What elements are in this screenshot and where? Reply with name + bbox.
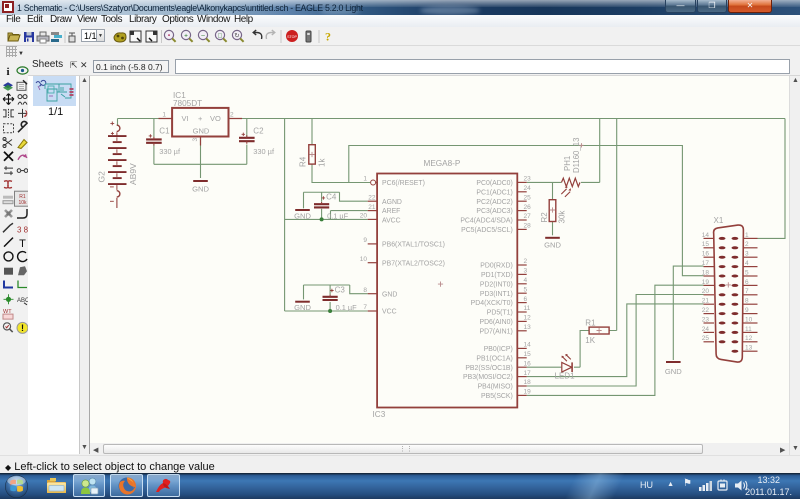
svg-text:13: 13 [524,324,532,331]
svg-text:1K: 1K [585,336,595,345]
svg-text:5: 5 [745,269,749,276]
IC3 left pins [360,176,445,316]
svg-text:3: 3 [745,251,749,258]
ground symbol below IC1 [193,180,208,182]
capacitor C2 330uF [239,138,255,141]
photoresistor PH1 D1160_13 [561,138,583,197]
ground symbol at X1 pin17 net [666,361,681,363]
X1 right pins 1-13 [732,232,758,353]
svg-text:21: 21 [702,298,710,305]
svg-text:IC3: IC3 [373,410,386,419]
svg-text:13: 13 [745,345,753,352]
svg-text:PD1(TXD): PD1(TXD) [481,272,513,279]
svg-text:PB5(SCK): PB5(SCK) [481,393,513,400]
svg-text:+: + [198,114,203,123]
wire C2 top branch [246,119,248,137]
wire C4 lower stub [321,209,323,220]
svg-text:22: 22 [368,194,376,201]
svg-text:5: 5 [524,286,528,293]
start orb [4,474,29,499]
wire C4 gnd drop [303,192,305,208]
wire photoresistor right to +5V rail [581,119,600,183]
wire GND pin 8 connection [350,285,368,294]
svg-text:PC0(ADC0): PC0(ADC0) [476,180,512,187]
svg-text:3: 3 [192,138,199,142]
svg-text:AB9V: AB9V [128,163,138,185]
svg-text:PC6(/RESET): PC6(/RESET) [382,180,425,187]
svg-text:18: 18 [524,379,532,386]
explorer [45,476,68,496]
svg-text:AVCC: AVCC [382,218,401,225]
svg-text:8: 8 [363,287,367,294]
wire +5V vertical to VCC [284,119,286,312]
svg-text:R2: R2 [540,212,549,223]
svg-text:11: 11 [524,305,531,312]
svg-text:4: 4 [745,260,749,267]
svg-text:PB3(M0SI/OC2): PB3(M0SI/OC2) [463,374,513,381]
svg-text:PD5(T1): PD5(T1) [487,310,513,317]
svg-text:VO: VO [210,114,221,123]
wire battery positive riser [117,119,119,127]
svg-text:PB1(OC1A): PB1(OC1A) [476,355,512,362]
wire PB2 pin 16 to LED1 [527,366,562,368]
ground symbol below R2 [545,237,560,239]
svg-text:3: 3 [524,268,528,275]
wire R4 top branch [311,119,313,145]
svg-text:7: 7 [745,288,749,295]
svg-text:VI: VI [182,114,189,123]
status bar [0,455,800,473]
svg-text:C3: C3 [335,286,346,295]
svg-text:26: 26 [524,204,532,211]
wire LED1 to R1 [574,331,589,368]
wire R4 bottom to RESET pin 1 [312,164,370,182]
svg-text:21: 21 [368,204,376,211]
wire IC1 pin3 to GND symbol [200,137,202,179]
node C4 top wire [304,191,340,193]
svg-text:D1160_13: D1160_13 [572,138,581,173]
IC3 right pins [460,176,531,400]
svg-text:20: 20 [702,288,710,295]
svg-text:PD0(RXD): PD0(RXD) [480,263,513,270]
svg-text:PC2(ADC2): PC2(ADC2) [476,199,512,206]
svg-text:20: 20 [360,213,368,220]
svg-text:19: 19 [524,389,532,396]
svg-text:12: 12 [524,315,532,322]
ground symbol at C3 [295,301,310,303]
svg-text:28: 28 [524,223,532,230]
wire C3 lower stub [329,302,331,311]
svg-text:GND: GND [294,303,311,312]
svg-text:7: 7 [363,304,367,311]
svg-text:R4: R4 [299,156,308,167]
wire X1 pin 17 to GND [673,266,703,360]
svg-text:PB6(XTAL1/TOSC1): PB6(XTAL1/TOSC1) [382,242,445,249]
svg-text:X1: X1 [714,216,724,225]
connector X1 DB25 [714,216,744,362]
svg-text:9: 9 [363,237,367,244]
svg-text:PD7(AIN1): PD7(AIN1) [479,328,512,335]
svg-text:15: 15 [524,351,532,358]
vertical scrollbar [789,76,800,455]
messenger button [73,474,105,497]
svg-text:1: 1 [363,176,367,183]
svg-text:R1: R1 [585,319,596,328]
wire R2 bottom to GND [552,222,554,236]
junction dot at C4/AVCC [320,217,324,221]
wire R2 tap [552,182,554,199]
svg-text:PD2(INT0): PD2(INT0) [480,281,513,288]
wire PC0 pin 23 to photoresistor [527,181,562,183]
svg-text:17: 17 [702,260,710,267]
microcontroller IC3 MEGA8-P [371,159,518,419]
svg-text:7805DT: 7805DT [173,99,202,108]
junction dot at C3/VCC [328,309,332,313]
svg-text:PB7(XTAL2/TOSC2): PB7(XTAL2/TOSC2) [382,260,445,267]
wire R1 right to +5V rail [609,119,617,331]
svg-text:AGND: AGND [382,199,402,206]
svg-text:24: 24 [524,185,532,192]
svg-text:2: 2 [230,112,234,119]
svg-text:23: 23 [702,316,710,323]
svg-text:14: 14 [524,342,532,349]
tray [799,473,800,499]
left tool palette [0,58,28,455]
wire +9V rail from battery to IC1 pin 1 [118,118,159,120]
svg-text:PH1: PH1 [563,156,572,171]
wire AREF pin 21 connection [331,211,368,220]
title bar [0,0,800,15]
svg-text:27: 27 [524,213,532,220]
svg-text:10: 10 [360,256,368,263]
resistor R4 1k [299,145,327,167]
wire C1 bottom to ground rail [153,145,155,164]
svg-text:LED1: LED1 [555,372,576,381]
svg-text:10: 10 [745,316,753,323]
svg-text:GND: GND [544,241,561,250]
toolbar [0,27,800,46]
svg-text:6: 6 [745,279,749,286]
svg-text:16: 16 [702,251,710,258]
capacitor C4 0.1uF [321,192,323,202]
wire PB5 pin 19 to X1 pin 19 [527,285,704,395]
taskbar [0,473,800,499]
svg-text:17: 17 [524,370,532,377]
svg-text:2: 2 [524,258,528,265]
svg-text:GND: GND [382,291,397,298]
svg-text:25: 25 [524,194,532,201]
capacitor C1 330uF [146,139,162,142]
X1 left pins 14-25 [702,232,726,343]
svg-text:19: 19 [702,279,710,286]
svg-text:8: 8 [745,298,749,305]
svg-text:C2: C2 [253,127,264,136]
resistor R2 30k [540,200,567,224]
svg-text:PD3(INT1): PD3(INT1) [480,291,513,298]
svg-text:15: 15 [702,241,710,248]
wire +5V rail from IC1 pin 2 to X1 pin 1 corner [242,118,785,120]
wire C1 top branch [153,119,155,138]
wire AVCC pin 20 rail [285,218,368,220]
svg-text:24: 24 [702,326,710,333]
svg-text:PD6(AIN0): PD6(AIN0) [479,319,512,326]
sheets panel [28,76,80,454]
svg-text:12: 12 [745,335,753,342]
svg-text:PB0(ICP): PB0(ICP) [484,346,513,353]
second row [0,58,800,76]
svg-text:PC5(ADC5/SCL): PC5(ADC5/SCL) [461,227,513,234]
svg-text:11: 11 [745,326,752,333]
svg-text:PB2(SS/OC1B): PB2(SS/OC1B) [465,365,512,372]
menu bar [0,15,800,27]
capacitor C3 0.1uF [329,285,331,295]
firefox button [110,474,143,497]
svg-text:AREF: AREF [382,208,400,215]
battery G2 AB9V [97,122,139,209]
svg-text:330 µf: 330 µf [159,147,181,156]
svg-text:PC3(ADC3): PC3(ADC3) [476,208,512,215]
svg-text:14: 14 [702,232,710,239]
svg-text:330 µf: 330 µf [253,147,275,156]
wire VCC pin 7 rail [285,310,368,312]
param row: grid icon [0,46,800,58]
svg-text:PC1(ADC1): PC1(ADC1) [476,189,512,196]
svg-text:GND: GND [665,367,682,376]
node C3 top wire [304,284,350,286]
svg-text:0.1 µF: 0.1 µF [336,303,358,312]
resistor R1 1K [585,319,609,346]
eagle button [147,474,180,497]
svg-text:18: 18 [702,269,710,276]
svg-text:C4: C4 [326,193,337,202]
svg-text:22: 22 [702,307,710,314]
svg-text:1k: 1k [318,158,327,167]
svg-text:GND: GND [294,212,311,221]
LED LED1 [555,354,576,381]
wire ground rail C1 to C2 [154,163,247,165]
wire C2 bottom drop [246,145,248,165]
svg-text:VCC: VCC [382,309,397,316]
svg-text:PD4(XCK/T0): PD4(XCK/T0) [471,300,513,307]
svg-text:MEGA8-P: MEGA8-P [424,159,461,168]
wire X1 pin 1 to +5V rail [758,119,786,239]
svg-text:1: 1 [745,232,749,239]
svg-text:30k: 30k [558,210,567,224]
svg-text:0.1 µF: 0.1 µF [327,212,349,221]
svg-text:GND: GND [193,127,210,136]
wire AGND pin 22 connection [340,192,368,201]
svg-text:GND: GND [192,185,209,194]
wire RESET riser and run to X1 pin 18 [349,146,704,276]
svg-text:9: 9 [745,307,749,314]
voltage regulator IC1 7805DT [159,91,243,146]
wire PB3 pin 17 to X1 pin 21 [527,304,704,377]
canvas [90,76,789,443]
svg-text:PB4(MISO): PB4(MISO) [478,384,513,391]
svg-text:PC4(ADC4/SDA): PC4(ADC4/SDA) [460,218,512,225]
svg-text:25: 25 [702,335,710,342]
svg-text:2: 2 [745,241,749,248]
svg-text:4: 4 [524,277,528,284]
wire C3 gnd drop [303,285,305,299]
horizontal scrollbar [90,443,789,455]
svg-text:C1: C1 [159,127,170,136]
svg-text:23: 23 [524,176,532,183]
svg-text:G2: G2 [97,171,107,183]
svg-text:6: 6 [524,296,528,303]
ground symbol at C4 [295,209,310,211]
wire PB4 pin 18 to X1 pin 20 [527,295,704,387]
svg-text:1: 1 [162,112,166,119]
svg-text:16: 16 [524,360,532,367]
